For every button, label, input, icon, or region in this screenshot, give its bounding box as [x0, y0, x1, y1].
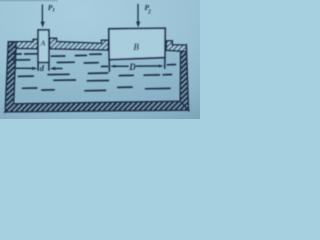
water dash	[84, 62, 98, 64]
water dash	[54, 79, 76, 81]
water dash	[42, 89, 54, 91]
water dash	[51, 55, 65, 57]
piston B right extension tick	[164, 58, 166, 69]
dimension d right arrowhead (points left)	[50, 67, 56, 70]
piston B left extension tick	[108, 60, 110, 72]
water dash	[118, 86, 132, 88]
piston A left extension tick	[37, 62, 39, 70]
water dash	[57, 61, 74, 63]
force arrow P1 shaft	[41, 5, 43, 23]
water dash	[48, 73, 69, 75]
water dash	[146, 87, 171, 89]
tank left flange	[8, 39, 37, 48]
water dash	[87, 80, 108, 82]
water dash	[25, 53, 38, 55]
tank middle flange	[50, 38, 109, 50]
dimension D line left segment	[112, 65, 128, 67]
water dash	[18, 75, 33, 77]
tank bottom	[5, 101, 188, 112]
top edge smudge	[0, 0, 58, 1]
water dash	[119, 74, 133, 76]
water dash	[85, 89, 106, 91]
dimension d right line	[54, 68, 62, 70]
dimension d left line	[13, 67, 34, 69]
dimension D right arrowhead (points right)	[159, 65, 164, 68]
piston A right extension tick	[48, 62, 50, 70]
dimension D line right segment	[137, 65, 161, 67]
water dash	[163, 74, 171, 76]
water dash	[13, 59, 30, 61]
water dash	[23, 87, 37, 89]
water dash	[102, 65, 108, 67]
water dash	[13, 53, 21, 55]
dimension d left arrowhead (points right)	[32, 67, 37, 70]
piston A	[38, 30, 49, 63]
film grain overlay	[0, 0, 200, 119]
tank left wall	[5, 42, 16, 112]
force arrow P2 shaft	[137, 4, 139, 22]
tank right wall	[180, 45, 188, 110]
tank right flange	[166, 41, 186, 52]
force arrow P2 head	[136, 22, 140, 28]
water dash	[167, 64, 175, 66]
water dash	[144, 74, 159, 76]
water region tint	[15, 49, 181, 102]
water dash	[75, 54, 86, 56]
water dash	[89, 72, 108, 74]
water dash	[90, 53, 101, 55]
piston B	[109, 28, 165, 59]
force arrow P1 head	[41, 22, 45, 28]
dimension D left arrowhead (points left)	[110, 65, 115, 68]
